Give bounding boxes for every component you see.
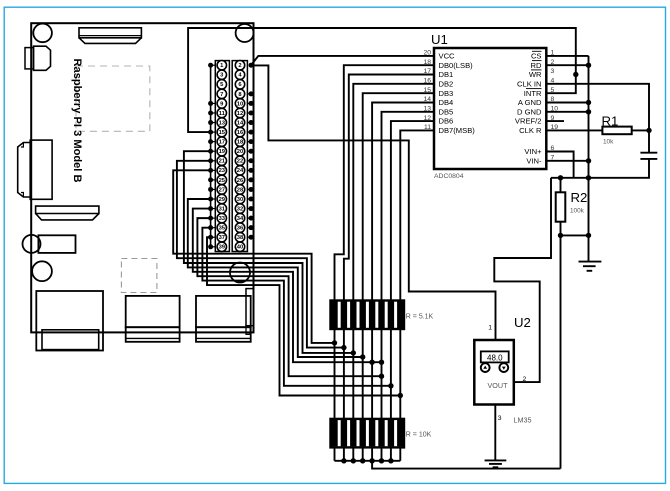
svg-text:20: 20: [237, 149, 243, 155]
svg-text:24: 24: [237, 168, 244, 174]
svg-text:48.0: 48.0: [487, 354, 503, 363]
svg-text:28: 28: [237, 187, 244, 193]
svg-text:DB7(MSB): DB7(MSB): [439, 126, 476, 135]
svg-text:DB2: DB2: [439, 79, 454, 88]
svg-text:27: 27: [219, 187, 225, 193]
svg-text:VOUT: VOUT: [488, 381, 509, 390]
svg-text:Raspberry PI 3 Model B: Raspberry PI 3 Model B: [71, 59, 83, 183]
svg-text:DB5: DB5: [439, 107, 454, 116]
svg-text:13: 13: [219, 120, 226, 126]
svg-text:U2: U2: [514, 315, 531, 330]
svg-text:DB6: DB6: [439, 117, 454, 126]
svg-text:21: 21: [219, 159, 226, 165]
svg-text:R = 5.1K: R = 5.1K: [406, 313, 434, 320]
svg-text:RD: RD: [531, 61, 542, 70]
svg-text:19: 19: [219, 149, 226, 155]
svg-text:DB1: DB1: [439, 70, 454, 79]
svg-text:D GND: D GND: [517, 107, 542, 116]
svg-text:DB3: DB3: [439, 89, 454, 98]
svg-text:22: 22: [237, 159, 243, 165]
svg-text:36: 36: [237, 226, 244, 232]
svg-text:37: 37: [219, 235, 225, 241]
svg-text:U1: U1: [431, 32, 448, 47]
svg-text:10: 10: [237, 101, 243, 107]
svg-text:1: 1: [488, 325, 492, 332]
svg-text:39: 39: [219, 245, 226, 251]
svg-text:VCC: VCC: [439, 52, 456, 61]
svg-text:38: 38: [237, 235, 244, 241]
svg-text:14: 14: [237, 120, 244, 126]
svg-text:31: 31: [219, 206, 226, 212]
svg-text:INTR: INTR: [524, 89, 542, 98]
svg-text:25: 25: [219, 178, 226, 184]
svg-text:VIN+: VIN+: [524, 147, 542, 156]
svg-text:100k: 100k: [570, 208, 585, 215]
svg-text:11: 11: [219, 111, 226, 117]
svg-text:35: 35: [219, 226, 226, 232]
svg-text:R2: R2: [571, 190, 588, 205]
svg-text:DB0(LSB): DB0(LSB): [439, 61, 474, 70]
svg-text:40: 40: [237, 245, 243, 251]
svg-text:DB4: DB4: [439, 98, 454, 107]
svg-text:2: 2: [238, 63, 241, 69]
svg-text:VIN-: VIN-: [526, 156, 542, 165]
svg-text:2: 2: [523, 376, 527, 383]
svg-text:3: 3: [498, 415, 502, 422]
svg-text:15: 15: [219, 130, 226, 136]
svg-text:CLK R: CLK R: [519, 126, 542, 135]
svg-text:7: 7: [220, 92, 223, 98]
svg-text:30: 30: [237, 197, 243, 203]
svg-text:23: 23: [219, 168, 226, 174]
svg-text:CLK IN: CLK IN: [517, 79, 541, 88]
svg-text:A GND: A GND: [518, 98, 542, 107]
svg-text:17: 17: [219, 140, 225, 146]
svg-text:12: 12: [237, 111, 243, 117]
svg-text:WR: WR: [529, 70, 542, 79]
svg-text:R1: R1: [602, 113, 619, 128]
svg-text:33: 33: [219, 216, 226, 222]
svg-text:3: 3: [551, 68, 555, 75]
svg-text:LM35: LM35: [514, 416, 532, 425]
svg-text:32: 32: [237, 206, 243, 212]
svg-text:34: 34: [237, 216, 244, 222]
svg-text:26: 26: [237, 178, 244, 184]
svg-text:CS: CS: [531, 52, 542, 61]
svg-text:29: 29: [219, 197, 226, 203]
svg-text:18: 18: [237, 140, 244, 146]
svg-text:10k: 10k: [603, 139, 614, 146]
svg-text:R = 10K: R = 10K: [406, 432, 432, 439]
svg-text:VREF/2: VREF/2: [515, 117, 542, 126]
svg-text:ADC0804: ADC0804: [434, 173, 464, 180]
svg-text:16: 16: [237, 130, 244, 136]
